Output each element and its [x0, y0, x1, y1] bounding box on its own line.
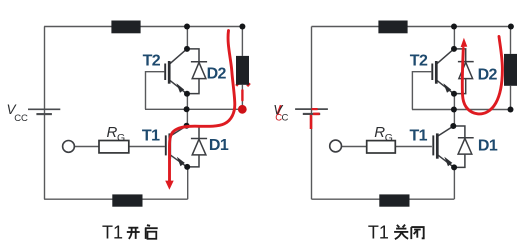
svg-text:D1: D1: [478, 137, 498, 154]
svg-text:G: G: [385, 132, 393, 144]
svg-text:R: R: [374, 124, 385, 141]
svg-text:D2: D2: [207, 66, 227, 83]
svg-text:G: G: [117, 132, 125, 144]
svg-text:T1: T1: [368, 222, 389, 242]
svg-text:T1: T1: [142, 127, 160, 144]
svg-text:T2: T2: [410, 53, 428, 70]
svg-text:R: R: [107, 124, 118, 141]
svg-text:T2: T2: [143, 53, 161, 70]
svg-text:C: C: [282, 113, 289, 124]
svg-text:D2: D2: [478, 66, 498, 83]
svg-text:D1: D1: [209, 137, 229, 154]
svg-text:CC: CC: [14, 113, 28, 124]
svg-text:C: C: [275, 113, 282, 124]
svg-text:T1: T1: [410, 128, 428, 145]
svg-text:T1: T1: [102, 222, 123, 242]
